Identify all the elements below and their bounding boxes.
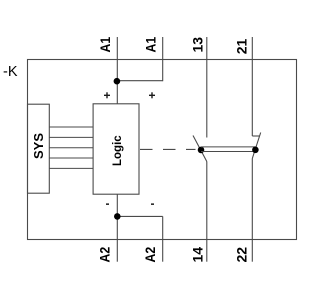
terminal A2 lead (first) <box>116 194 118 262</box>
terminal 22 lead <box>251 159 253 262</box>
SYS-Logic bus wire 1 <box>49 126 93 128</box>
svg-text:SYS: SYS <box>31 133 46 159</box>
svg-text:-K: -K <box>3 64 18 80</box>
polarity + (first A1) <box>104 92 110 98</box>
polarity - (first A2) <box>106 203 109 205</box>
block SYS <box>28 104 50 193</box>
terminal A2 lead (second) <box>162 216 164 261</box>
svg-text:21: 21 <box>234 39 250 55</box>
junction dot node A1 <box>114 78 121 85</box>
svg-text:A2: A2 <box>97 247 113 263</box>
wire A2 bridge (node A2) <box>117 215 162 217</box>
terminal 14 lead <box>206 162 208 262</box>
terminal 21 lead <box>251 37 253 136</box>
svg-text:Logic: Logic <box>112 135 124 166</box>
polarity + (second A1) <box>149 92 155 98</box>
contact 21-22 junction dot <box>252 147 259 154</box>
mechanical linkage bar (lower line) <box>201 151 255 153</box>
SYS-Logic bus wire 5 <box>49 167 93 169</box>
contact 13-14 NO: moving arm <box>193 136 207 162</box>
wire A1 bridge (node A1) <box>117 80 163 82</box>
contact 21-22 NC: moving arm <box>252 133 260 159</box>
terminal 13 lead <box>206 37 208 138</box>
contact 21-22 NC: seat stub <box>252 135 260 137</box>
mechanical linkage bar (upper line) <box>201 146 255 148</box>
terminal A1 lead (second) <box>162 37 164 81</box>
contact 13-14 junction dot <box>198 147 205 154</box>
polarity - (second A2) <box>151 203 154 205</box>
svg-text:A2: A2 <box>142 247 158 263</box>
block Logic <box>93 104 139 194</box>
relay device outline -K <box>28 60 297 240</box>
svg-text:13: 13 <box>190 37 206 53</box>
junction dot node A2 <box>114 213 121 220</box>
svg-text:A1: A1 <box>143 37 159 53</box>
svg-text:A1: A1 <box>97 37 113 53</box>
svg-text:22: 22 <box>234 247 250 263</box>
dashed actuation link from Logic to contacts <box>140 148 196 150</box>
SYS-Logic bus wire 4 <box>49 157 93 159</box>
SYS-Logic bus wire 2 <box>49 136 93 138</box>
svg-text:14: 14 <box>190 247 206 263</box>
terminal A1 lead (first) <box>116 37 118 104</box>
SYS-Logic bus wire 3 <box>49 147 93 149</box>
